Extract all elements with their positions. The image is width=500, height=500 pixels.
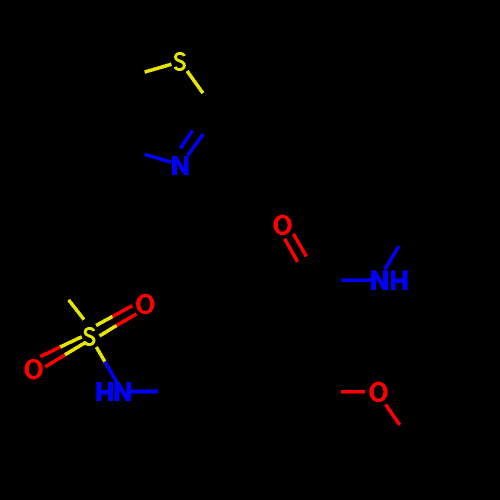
wire S=O top-right line b (S half yellow) xyxy=(100,326,117,337)
atom label N of sulfonamide HN xyxy=(115,382,132,401)
wire S=O top-right line b (O half red) xyxy=(117,314,137,326)
wire N3-C3a (N half-bond) xyxy=(145,154,171,162)
atom label S1 thiazole xyxy=(175,54,184,70)
wire S1-C7a thiazole (S half-bond) xyxy=(145,64,172,72)
atom label O sulfonyl top-right xyxy=(136,294,154,315)
atom label H of sulfonamide HN xyxy=(96,382,113,401)
wire C2=N3 inner line (N half) xyxy=(180,131,192,149)
wire amide C=O double bond line a xyxy=(285,239,298,262)
wire S-N sulfonamide (S half yellow) xyxy=(96,347,105,362)
wire sulfonamide N-C aryl (N half) xyxy=(130,390,158,394)
wire amide C=O double bond line b xyxy=(293,234,306,257)
wire S=O bottom-left line a (S half yellow) xyxy=(60,337,82,347)
atom label S sulfonyl xyxy=(85,329,94,345)
wire C2=N3 main line (N half) xyxy=(188,134,204,156)
atom label O carbonyl xyxy=(273,215,291,236)
wire methoxy O-CH3 (O half) xyxy=(386,404,400,425)
wire S=O top-right line a (O half red) xyxy=(113,306,133,317)
wire methoxy O-C aryl (O half) xyxy=(341,390,365,394)
atom label H of amide NH xyxy=(391,271,408,290)
atom label N3 thiazole xyxy=(172,156,189,175)
wire sulfonyl S-CH3 (S half) xyxy=(69,300,84,320)
wire S1-C2 thiazole (S half-bond) xyxy=(187,71,203,93)
wire S=O top-right line a (S half yellow) xyxy=(96,317,113,326)
wire S-N sulfonamide (N half blue) xyxy=(105,362,122,391)
atom label O sulfonyl bottom-left xyxy=(24,359,42,380)
wire S=O bottom-left line b (O half red) xyxy=(45,355,65,367)
wire amide N-C up-right (N half) xyxy=(385,246,399,269)
wire S=O bottom-left line b (S half yellow) xyxy=(65,342,86,355)
wire S=O bottom-left line a (O half red) xyxy=(40,347,60,357)
atom label O methoxy xyxy=(369,382,387,403)
wire amide C-N (N half) xyxy=(342,279,371,283)
atom label N of amide NH xyxy=(371,271,388,290)
